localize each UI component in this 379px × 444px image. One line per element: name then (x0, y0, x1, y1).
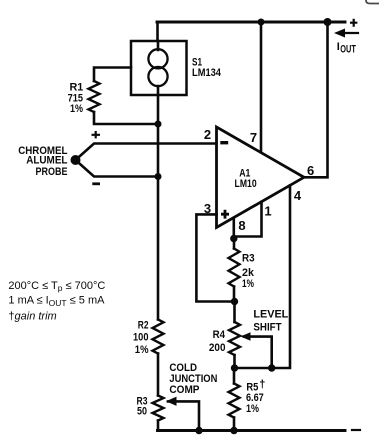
svg-text:2: 2 (204, 127, 211, 142)
wire R3 wiper to bottom rail (168, 401, 199, 430)
wire S1 box bottom down through node (157, 95, 160, 177)
op-amp inverting input minus sign (220, 141, 228, 144)
svg-text:COMP: COMP (169, 384, 199, 396)
wire node to R3 2k (233, 239, 236, 249)
node junction minus lead (155, 173, 162, 180)
node junction pin7 rail (258, 19, 265, 26)
svg-text:1: 1 (264, 204, 271, 219)
svg-text:JUNCTION: JUNCTION (169, 373, 217, 385)
svg-text:LM134: LM134 (192, 67, 222, 79)
svg-text:4: 4 (294, 188, 302, 203)
arrowhead R3 wiper (166, 397, 177, 406)
node junction pins 1-8 (230, 235, 237, 242)
wire R5 bottom to rail (233, 418, 236, 431)
resistor R3 2k (229, 249, 240, 287)
resistor R1 (89, 81, 100, 112)
wire R2 to R3 pot (157, 354, 160, 396)
svg-text:1%: 1% (70, 103, 83, 115)
wire pin 7 to top rail (260, 22, 263, 152)
wire R1 top branch from S1 box left to R1 (94, 68, 131, 82)
minus sign probe (92, 182, 100, 185)
svg-text:1%: 1% (242, 278, 254, 290)
current source S1 circles (148, 49, 167, 68)
node junction wiper-rail (195, 427, 202, 434)
svg-text:200°C ≤ Tp ≤ 700°C: 200°C ≤ Tp ≤ 700°C (8, 280, 105, 293)
svg-text:6: 6 (307, 163, 314, 178)
wire pin 6 output up to top rail (304, 22, 328, 177)
svg-text:1%: 1% (246, 403, 259, 415)
wire from top rail down to S1 box (156, 22, 159, 41)
wire node to R4 (233, 302, 236, 323)
wire R4 bottom to node (233, 355, 236, 368)
svg-text:200: 200 (209, 342, 226, 354)
wire pin 8 stub (233, 218, 236, 239)
wire R4 wiper to level shift node (244, 337, 272, 368)
svg-text:7: 7 (250, 130, 257, 145)
svg-text:R3: R3 (242, 253, 255, 265)
op-amp A1 triangle (217, 127, 305, 228)
wire IOUT arrow (339, 32, 358, 34)
svg-text:R2: R2 (138, 319, 149, 331)
svg-text:1%: 1% (135, 344, 149, 356)
decorative corner fragment top right (366, 0, 379, 4)
wire node to R5 (233, 368, 236, 384)
svg-text:†gain trim: †gain trim (8, 311, 56, 323)
plus sign top right terminal (350, 19, 357, 27)
svg-text:8: 8 (238, 218, 245, 233)
wire pin 1 stub to node (234, 202, 262, 237)
potentiometer R3 cold junction (153, 396, 164, 421)
label S1 LM134 (0, 0, 1, 1)
wire R3 pot bottom to bottom rail (157, 421, 160, 431)
svg-text:SHIFT: SHIFT (253, 322, 281, 334)
resistor R2 (153, 320, 164, 354)
wire pin 3 feedback loop (196, 214, 234, 301)
wire probe plus lead to pin 2 (76, 144, 217, 161)
svg-text:50: 50 (137, 406, 147, 418)
wire probe minus lead to node (76, 160, 159, 177)
potentiometer R4 level shift (229, 322, 240, 355)
plus sign probe (92, 131, 101, 138)
node junction R4-R5 (231, 364, 238, 371)
svg-text:ALUMEL: ALUMEL (26, 154, 68, 166)
svg-text:†: † (259, 379, 265, 391)
minus terminal dash bottom right (352, 429, 360, 431)
arrowhead R4 wiper (241, 332, 251, 341)
node junction R5-rail (230, 427, 237, 434)
wire S1 internal vertical (157, 41, 160, 95)
svg-text:LM10: LM10 (235, 178, 257, 190)
thermocouple probe junction (71, 155, 81, 165)
node junction R3-R4 feedback (231, 298, 238, 305)
svg-text:LEVEL: LEVEL (253, 309, 288, 321)
svg-text:OUT: OUT (340, 44, 356, 56)
svg-text:100: 100 (133, 332, 149, 344)
current source S1 box (131, 41, 187, 95)
svg-text:1 mA ≤ IOUT ≤ 5 mA: 1 mA ≤ IOUT ≤ 5 mA (8, 295, 105, 308)
node junction wiper-levelshift (268, 364, 275, 371)
svg-text:PROBE: PROBE (36, 166, 68, 178)
resistor R5 (229, 384, 240, 418)
wire R3 2k bottom to node (233, 287, 236, 302)
node junction S1/R1 (155, 121, 162, 128)
arrowhead IOUT (334, 29, 345, 38)
wire top rail V+ (157, 21, 345, 24)
svg-text:3: 3 (204, 201, 211, 216)
wire R1 bottom branch to node (94, 112, 158, 124)
wire bottom rail (158, 429, 346, 432)
svg-text:R4: R4 (213, 329, 226, 341)
op-amp noninverting input plus sign (221, 210, 229, 219)
node junction output rail (324, 18, 332, 26)
wire left column down to R2 (157, 177, 160, 320)
wire pin 4 down to level shift node (235, 186, 291, 369)
